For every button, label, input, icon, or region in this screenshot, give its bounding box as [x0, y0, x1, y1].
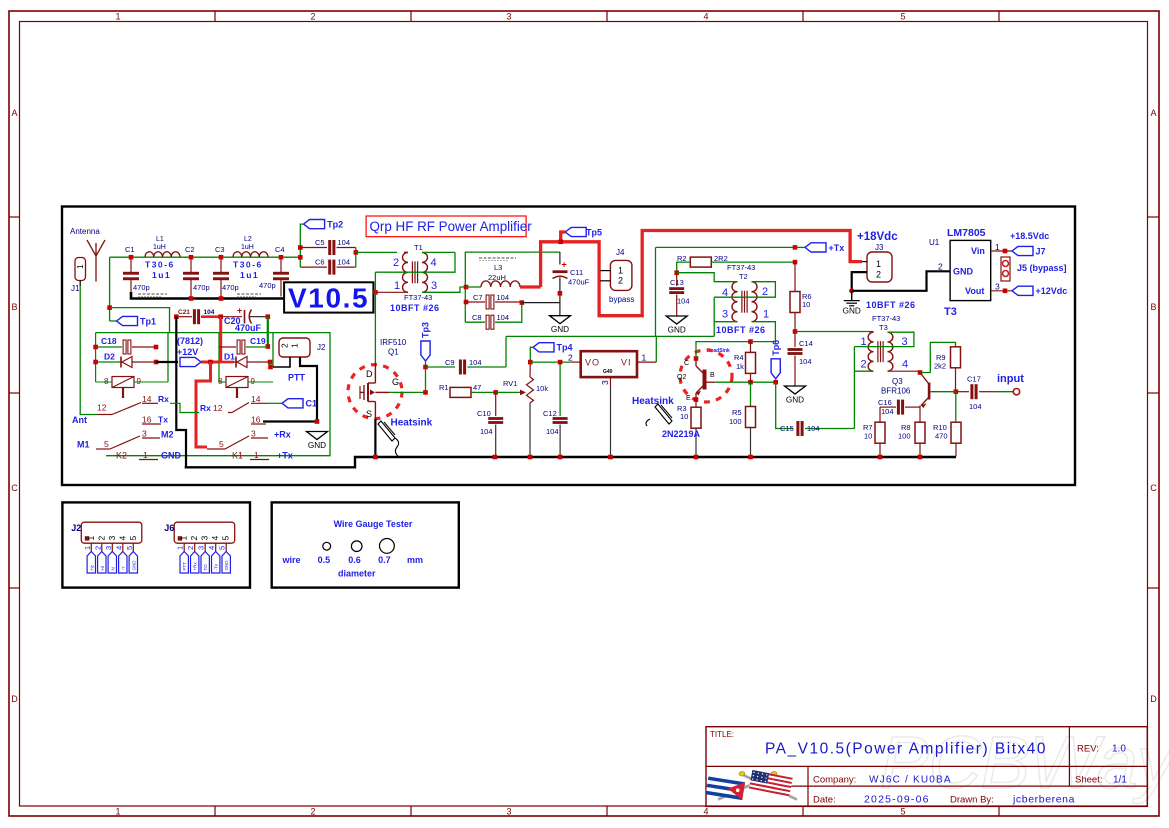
svg-text:47: 47	[473, 383, 481, 392]
svg-text:1: 1	[618, 266, 623, 276]
svg-text:3: 3	[506, 807, 511, 817]
svg-text:3: 3	[506, 12, 511, 22]
svg-text:C3: C3	[215, 245, 225, 254]
svg-text:REV:: REV:	[1077, 744, 1099, 755]
svg-text:12: 12	[97, 403, 107, 413]
svg-text:C7: C7	[473, 293, 483, 302]
svg-text:J2: J2	[71, 523, 81, 533]
svg-text:-Tx: -Tx	[214, 563, 219, 570]
svg-text:10BFT #26: 10BFT #26	[716, 325, 766, 335]
svg-text:C1: C1	[125, 245, 135, 254]
svg-text:1: 1	[176, 546, 185, 550]
svg-text:GND: GND	[953, 267, 974, 277]
svg-text:4: 4	[703, 807, 708, 817]
svg-text:D: D	[1150, 694, 1157, 704]
svg-text:K1: K1	[232, 451, 243, 461]
svg-text:104: 104	[881, 407, 894, 416]
svg-text:J6: J6	[164, 523, 174, 533]
svg-text:jcberberena: jcberberena	[1012, 794, 1075, 806]
svg-text:VI: VI	[621, 358, 632, 368]
svg-text:470p: 470p	[222, 283, 239, 292]
svg-text:V10.5: V10.5	[288, 283, 369, 314]
svg-text:104: 104	[469, 358, 482, 367]
svg-text:FT37-43: FT37-43	[404, 293, 432, 302]
svg-text:10BFT #26: 10BFT #26	[866, 300, 916, 310]
svg-text:C1: C1	[306, 399, 318, 409]
svg-text:470: 470	[935, 432, 948, 441]
svg-text:GND: GND	[161, 451, 182, 461]
svg-text:4: 4	[431, 257, 437, 269]
svg-text:2: 2	[310, 807, 315, 817]
svg-text:N: N	[110, 567, 115, 570]
svg-text:3: 3	[142, 429, 147, 439]
svg-text:1.0: 1.0	[1112, 744, 1126, 755]
svg-text:+18Vdc: +18Vdc	[857, 231, 898, 243]
svg-text:D2: D2	[104, 352, 115, 362]
svg-text:104: 104	[677, 297, 690, 306]
svg-text:Heatsink: Heatsink	[632, 396, 674, 407]
svg-text:C8: C8	[472, 313, 482, 322]
svg-text:C21: C21	[178, 309, 190, 316]
svg-text:4: 4	[114, 546, 123, 550]
svg-text:1: 1	[763, 309, 769, 321]
svg-text:G40: G40	[603, 369, 613, 375]
svg-text:R5: R5	[732, 408, 742, 417]
svg-text:C4: C4	[275, 245, 285, 254]
svg-text:TITLE:: TITLE:	[710, 730, 734, 739]
svg-text:2N2219A: 2N2219A	[662, 429, 701, 439]
svg-text:T2: T2	[739, 272, 748, 281]
svg-text:R4: R4	[734, 353, 744, 362]
svg-text:104: 104	[338, 238, 351, 247]
svg-text:2k2: 2k2	[934, 362, 946, 371]
svg-text:100: 100	[729, 417, 742, 426]
svg-text:Tp5: Tp5	[586, 227, 602, 237]
svg-text:+Tx: +Tx	[277, 451, 293, 461]
svg-text:GND: GND	[668, 326, 686, 335]
svg-text:C12: C12	[543, 409, 557, 418]
svg-text:J7: J7	[1036, 246, 1046, 256]
svg-text:PTT: PTT	[288, 373, 306, 383]
svg-text:L2: L2	[244, 236, 252, 243]
svg-text:GND: GND	[131, 560, 136, 571]
svg-text:mm: mm	[407, 555, 423, 565]
svg-text:Ant: Ant	[72, 415, 87, 425]
svg-text:100: 100	[898, 432, 911, 441]
svg-text:L1: L1	[156, 236, 164, 243]
svg-text:LM7805: LM7805	[947, 227, 986, 239]
svg-text:C: C	[684, 360, 689, 367]
svg-text:3: 3	[722, 309, 728, 321]
svg-text:Tx: Tx	[158, 415, 168, 425]
svg-text:Tp3: Tp3	[421, 322, 431, 338]
svg-text:A: A	[11, 108, 17, 118]
svg-text:470p: 470p	[133, 283, 150, 292]
svg-text:S: S	[366, 409, 372, 419]
svg-text:G: G	[392, 377, 399, 387]
svg-text:2025-09-06: 2025-09-06	[864, 794, 930, 806]
svg-text:C6: C6	[315, 258, 325, 267]
svg-text:2: 2	[310, 12, 315, 22]
svg-text:14: 14	[142, 394, 152, 404]
svg-text:Tp1: Tp1	[140, 316, 156, 326]
svg-text:14: 14	[251, 394, 261, 404]
svg-text:C17: C17	[967, 375, 981, 384]
svg-text:1uH: 1uH	[153, 244, 166, 251]
svg-text:D: D	[11, 694, 18, 704]
svg-text:1: 1	[876, 259, 881, 269]
svg-text:D: D	[366, 369, 373, 379]
svg-text:FT37-43: FT37-43	[872, 314, 900, 323]
svg-text:C19: C19	[250, 336, 266, 346]
svg-text:1: 1	[86, 536, 96, 541]
svg-text:5: 5	[218, 546, 227, 550]
svg-text:1: 1	[115, 807, 120, 817]
svg-text:1: 1	[394, 280, 400, 292]
svg-text:R1: R1	[439, 383, 449, 392]
svg-text:T30-6: T30-6	[233, 260, 263, 270]
svg-text:M1: M1	[77, 440, 90, 450]
svg-text:16: 16	[251, 415, 261, 425]
svg-text:10: 10	[864, 432, 872, 441]
svg-text:2: 2	[938, 262, 943, 272]
svg-text:C2: C2	[185, 245, 195, 254]
svg-text:B: B	[710, 372, 715, 379]
svg-text:2: 2	[876, 270, 881, 280]
svg-text:1k: 1k	[736, 362, 744, 371]
svg-text:2: 2	[568, 353, 573, 363]
svg-text:104: 104	[969, 402, 982, 411]
svg-text:VO: VO	[585, 358, 600, 368]
svg-text:bypass: bypass	[609, 295, 634, 304]
svg-text:2: 2	[96, 536, 106, 541]
svg-text:Q1: Q1	[388, 348, 399, 357]
svg-text:4: 4	[210, 536, 220, 541]
svg-text:Rx: Rx	[158, 394, 169, 404]
svg-text:C18: C18	[101, 336, 117, 346]
svg-text:1: 1	[179, 536, 189, 541]
svg-text:1: 1	[642, 353, 647, 363]
svg-text:Drawn By:: Drawn By:	[950, 795, 994, 806]
svg-text:+12Vdc: +12Vdc	[1036, 286, 1068, 296]
svg-text:TO: TO	[203, 564, 208, 571]
svg-text:104: 104	[546, 427, 559, 436]
svg-text:E: E	[686, 395, 691, 402]
svg-text:4: 4	[902, 359, 908, 371]
svg-text:IRF510: IRF510	[380, 338, 407, 347]
svg-text:1: 1	[115, 12, 120, 22]
svg-text:4: 4	[117, 536, 127, 541]
svg-text:PA_V10.5(Power Amplifier) Bitx: PA_V10.5(Power Amplifier) Bitx40	[765, 741, 1047, 758]
svg-text:wire: wire	[282, 555, 301, 565]
svg-text:1u1: 1u1	[240, 270, 259, 280]
svg-text:PTT: PTT	[182, 562, 187, 571]
svg-text:GND: GND	[843, 307, 861, 316]
svg-text:12: 12	[213, 403, 223, 413]
svg-text:1: 1	[83, 546, 92, 550]
svg-text:BFR106: BFR106	[881, 387, 911, 396]
svg-text:Vin: Vin	[971, 246, 985, 256]
svg-text:470p: 470p	[259, 281, 276, 290]
svg-text:5: 5	[104, 439, 109, 449]
svg-text:(7812): (7812)	[177, 336, 203, 346]
svg-text:T30-6: T30-6	[145, 260, 175, 270]
svg-text:+18.5Vdc: +18.5Vdc	[1010, 231, 1049, 241]
svg-text:2: 2	[393, 257, 399, 269]
svg-text:Hi: Hi	[100, 566, 105, 570]
svg-text:+: +	[237, 306, 242, 316]
svg-text:2: 2	[618, 276, 623, 286]
svg-text:J1: J1	[71, 284, 80, 293]
svg-text:D1: D1	[224, 352, 235, 362]
svg-text:B: B	[11, 302, 17, 312]
svg-text:5: 5	[221, 536, 231, 541]
svg-text:Wire Gauge Tester: Wire Gauge Tester	[334, 519, 413, 529]
svg-text:A: A	[1150, 108, 1156, 118]
svg-text:+Rx: +Rx	[274, 430, 291, 440]
svg-text:470uF: 470uF	[568, 278, 590, 287]
svg-text:1uH: 1uH	[241, 244, 254, 251]
svg-text:Tp2: Tp2	[327, 220, 343, 230]
svg-text:FT37-43: FT37-43	[727, 263, 755, 272]
svg-text:J3: J3	[875, 243, 884, 252]
svg-text:C10: C10	[477, 409, 491, 418]
svg-text:Date:: Date:	[813, 795, 836, 806]
svg-text:GND: GND	[308, 441, 326, 450]
svg-text:+Rx: +Rx	[193, 562, 198, 571]
svg-text:1u1: 1u1	[152, 270, 171, 280]
svg-text:Company:: Company:	[813, 775, 856, 786]
svg-text:M2: M2	[161, 430, 174, 440]
svg-text:470p: 470p	[193, 283, 210, 292]
svg-text:Hz: Hz	[89, 564, 94, 570]
svg-text:1/1: 1/1	[1113, 774, 1127, 785]
svg-text:K2: K2	[116, 451, 127, 461]
svg-text:T3: T3	[944, 306, 957, 318]
svg-text:T1: T1	[414, 243, 423, 252]
svg-text:1: 1	[76, 264, 85, 269]
svg-text:C: C	[11, 483, 18, 493]
svg-text:diameter: diameter	[338, 569, 376, 579]
svg-text:PCBWay: PCBWay	[880, 721, 1169, 804]
svg-text:3: 3	[107, 536, 117, 541]
svg-text:-?: -?	[121, 566, 126, 570]
svg-text:Q3: Q3	[892, 377, 903, 386]
svg-text:0.5: 0.5	[318, 555, 331, 565]
svg-text:5: 5	[900, 807, 905, 817]
svg-text:3: 3	[104, 546, 113, 550]
svg-text:C16: C16	[878, 398, 892, 407]
svg-text:5: 5	[125, 546, 134, 550]
svg-text:Qrp HF RF Power Amplifier: Qrp HF RF Power Amplifier	[370, 219, 533, 234]
svg-text:3: 3	[197, 546, 206, 550]
svg-text:L3: L3	[494, 263, 502, 272]
svg-text:104: 104	[497, 293, 510, 302]
svg-text:3: 3	[431, 280, 437, 292]
svg-text:GND: GND	[224, 560, 229, 571]
svg-text:input: input	[997, 373, 1024, 385]
svg-text:10: 10	[802, 300, 810, 309]
svg-text:GND: GND	[551, 325, 569, 334]
svg-text:0.7: 0.7	[378, 555, 391, 565]
svg-text:Sheet:: Sheet:	[1075, 774, 1102, 785]
svg-text:C11: C11	[570, 268, 583, 277]
svg-text:Heatsink: Heatsink	[391, 418, 433, 429]
svg-text:104: 104	[807, 424, 820, 433]
svg-text:10BFT #26: 10BFT #26	[390, 303, 440, 313]
svg-text:Tp4: Tp4	[557, 343, 573, 353]
svg-text:104: 104	[204, 309, 215, 316]
svg-text:C5: C5	[315, 238, 325, 247]
svg-text:2: 2	[280, 343, 290, 348]
svg-text:C9: C9	[445, 358, 455, 367]
svg-text:104: 104	[480, 427, 493, 436]
svg-text:B: B	[1150, 302, 1156, 312]
svg-text:16: 16	[142, 415, 152, 425]
svg-text:4: 4	[207, 546, 216, 550]
svg-text:104: 104	[338, 258, 351, 267]
svg-text:5: 5	[128, 536, 138, 541]
svg-text:0.6: 0.6	[348, 555, 361, 565]
svg-text:+: +	[562, 260, 567, 270]
svg-text:J4: J4	[616, 248, 625, 257]
svg-text:Rx: Rx	[200, 403, 211, 413]
svg-text:2: 2	[189, 536, 199, 541]
svg-text:3: 3	[200, 536, 210, 541]
svg-text:WJ6C / KU0BA: WJ6C / KU0BA	[869, 775, 952, 786]
svg-text:C14: C14	[799, 339, 813, 348]
svg-text:104: 104	[497, 313, 510, 322]
svg-text:2: 2	[762, 286, 768, 298]
svg-text:4: 4	[703, 12, 708, 22]
svg-text:+12V: +12V	[177, 347, 198, 357]
svg-text:2: 2	[861, 359, 867, 371]
svg-text:2: 2	[186, 546, 195, 550]
svg-text:10k: 10k	[536, 384, 548, 393]
svg-text:C15: C15	[780, 424, 794, 433]
svg-text:Tp6: Tp6	[771, 340, 781, 356]
svg-text:1: 1	[143, 450, 148, 460]
svg-text:3: 3	[251, 429, 256, 439]
svg-text:Antenna: Antenna	[70, 227, 100, 236]
svg-text:1: 1	[254, 450, 259, 460]
svg-text:RV1: RV1	[503, 379, 517, 388]
svg-text:Vout: Vout	[965, 286, 984, 296]
svg-text:1: 1	[290, 343, 300, 348]
svg-text:C: C	[1150, 483, 1157, 493]
svg-text:5: 5	[900, 12, 905, 22]
svg-text:470uF: 470uF	[235, 323, 262, 333]
svg-text:Q2: Q2	[677, 374, 686, 381]
svg-text:GND: GND	[786, 396, 804, 405]
svg-text:3: 3	[995, 282, 1000, 292]
svg-text:10: 10	[680, 412, 688, 421]
svg-text:J2: J2	[317, 343, 326, 352]
svg-text:+Tx: +Tx	[829, 243, 845, 253]
svg-text:U1: U1	[929, 238, 940, 247]
svg-text:J5 (bypass]: J5 (bypass]	[1017, 263, 1067, 273]
svg-text:5: 5	[219, 439, 224, 449]
svg-text:2: 2	[93, 546, 102, 550]
svg-text:3: 3	[600, 380, 610, 385]
svg-text:104: 104	[799, 357, 812, 366]
svg-text:T3: T3	[879, 323, 888, 332]
